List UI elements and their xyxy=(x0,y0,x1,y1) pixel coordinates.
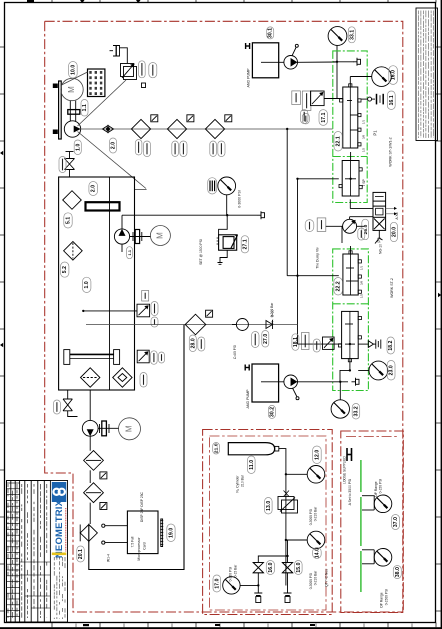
pressure header xyxy=(122,214,257,216)
label 12.0 xyxy=(313,446,322,464)
label 2.0 xyxy=(110,138,117,153)
svg-text:M: M xyxy=(67,86,76,93)
svg-text:0-210 Bar: 0-210 Bar xyxy=(314,506,318,521)
top fold mark xyxy=(27,0,34,3)
svg-text:1/1: 1/1 xyxy=(360,266,364,271)
RV3 drain bracket xyxy=(218,250,228,264)
coupling P1.1-M2 xyxy=(133,230,142,244)
bold H mark xyxy=(246,43,250,49)
label 060 xyxy=(142,291,149,302)
check valve CV3 xyxy=(358,341,373,348)
svg-text:22.1: 22.1 xyxy=(336,136,342,146)
label 16.1 xyxy=(387,91,395,110)
return filter F7 xyxy=(185,314,206,335)
svg-text:Fl→ O-10: Fl→ O-10 xyxy=(271,310,275,325)
enclosure box (right/bottom) xyxy=(89,325,184,570)
svg-text:17.1: 17.1 xyxy=(321,112,327,122)
label 17.0 xyxy=(213,575,221,592)
filter F1 xyxy=(131,119,150,138)
strainer F9 xyxy=(113,368,132,387)
label 38.0 xyxy=(393,566,401,579)
mounting plate xyxy=(59,81,62,139)
svg-text:NEOMETRIX: NEOMETRIX xyxy=(54,499,65,558)
svg-text:The Dump Vlv: The Dump Vlv xyxy=(316,247,320,269)
svg-text:23.0: 23.0 xyxy=(389,365,395,375)
svg-text:1.1: 1.1 xyxy=(128,250,132,256)
svg-text:30.2: 30.2 xyxy=(269,407,275,417)
svg-text:1/2: 1/2 xyxy=(360,294,364,299)
label 20.0 xyxy=(390,222,397,241)
svg-text:20.1: 20.1 xyxy=(78,549,84,559)
gauge DP2 xyxy=(374,549,392,567)
label 33.2 xyxy=(352,404,360,420)
svg-text:M: M xyxy=(125,425,134,432)
svg-text:QTY=2 Nos: QTY=2 Nos xyxy=(324,569,328,587)
svg-text:Microprocessor: Microprocessor xyxy=(137,537,141,561)
reservoir tank xyxy=(59,177,135,390)
svg-text:SET @ 1500 PSI: SET @ 1500 PSI xyxy=(199,239,203,265)
label xyxy=(301,110,308,124)
relief valve RV3 xyxy=(217,234,238,250)
gauge 33.2 drop xyxy=(339,382,341,400)
red box B outer (DP gauges kit) xyxy=(341,431,404,613)
hand pump HP2 xyxy=(284,375,299,400)
title block column dividers xyxy=(10,481,12,623)
plate bolt top xyxy=(53,84,58,89)
label r18 xyxy=(302,333,310,350)
F1 bypass xyxy=(151,115,158,122)
label 22.2 xyxy=(334,278,343,296)
internal lines V1 xyxy=(347,77,372,131)
manifold valve V1 (ST-1 upper) xyxy=(340,84,361,148)
svg-text:0-1500 PSI: 0-1500 PSI xyxy=(384,589,388,606)
svg-text:WORK ST-2: WORK ST-2 xyxy=(390,278,394,298)
red box B inner top line xyxy=(346,436,398,438)
N2 bottle xyxy=(228,443,281,455)
F2 bypass xyxy=(187,115,194,122)
return line 1 xyxy=(83,310,137,312)
DCV pilot lines right xyxy=(386,207,397,215)
svg-text:33.2: 33.2 xyxy=(354,406,360,416)
svg-text:1.0: 1.0 xyxy=(84,281,90,288)
label 16.0 xyxy=(389,66,398,85)
needle valve NV1 xyxy=(253,562,263,572)
F3 bypass xyxy=(225,115,232,122)
manifold valve V3 (ST-2 upper) xyxy=(343,251,362,295)
plug pressure header xyxy=(257,211,265,219)
drive line diagonal down xyxy=(78,132,147,189)
svg-text:5.1: 5.1 xyxy=(66,217,72,224)
wire g2 xyxy=(286,539,307,541)
label 22x xyxy=(305,220,314,232)
gauge N2-3 xyxy=(223,577,240,594)
svg-text:NG-10: NG-10 xyxy=(379,244,383,254)
label 22.1 xyxy=(334,132,342,152)
feed line y276 xyxy=(287,275,339,277)
junction gauge xyxy=(226,214,228,216)
svg-text:14.0: 14.0 xyxy=(314,548,320,558)
wire to 23.0 xyxy=(358,370,369,372)
gauge 33.1 xyxy=(328,27,347,46)
label rv3 xyxy=(241,236,248,253)
svg-text:17.0: 17.0 xyxy=(214,578,220,588)
svg-text:LOOSE SUPPLIED: LOOSE SUPPLIED xyxy=(343,455,347,483)
link manifolds xyxy=(349,199,351,208)
svg-text:T SP: T SP xyxy=(362,179,366,187)
svg-text:12.0: 12.0 xyxy=(314,450,320,460)
svg-text:27.0: 27.0 xyxy=(263,334,269,344)
svg-text:0-200 PSI: 0-200 PSI xyxy=(229,567,233,582)
junction y276 xyxy=(296,275,298,277)
filter F2 xyxy=(167,119,186,138)
junction return1 xyxy=(82,310,84,312)
gauge drop xyxy=(226,195,228,216)
F11 bypass xyxy=(100,503,107,510)
label htr xyxy=(151,351,158,365)
wire relief to manifold xyxy=(324,98,343,100)
stub at diagonal end xyxy=(135,189,147,191)
svg-text:22.2: 22.2 xyxy=(336,281,342,291)
junction V4 xyxy=(349,343,351,345)
label 17.1 xyxy=(319,110,328,126)
label sv1 xyxy=(59,157,66,173)
return header y325 xyxy=(86,324,298,326)
svg-text:10.0: 10.0 xyxy=(70,65,76,75)
vent symbols xyxy=(254,593,262,603)
svg-text:3/9: 3/9 xyxy=(362,135,366,140)
svg-text:33.1: 33.1 xyxy=(349,30,355,40)
label cv1a xyxy=(252,332,260,348)
svg-text:0-210 Bar: 0-210 Bar xyxy=(314,570,318,585)
svg-text:AND PUMP: AND PUMP xyxy=(247,68,251,88)
directional control valve DCV1 xyxy=(373,192,386,230)
label 26.0 xyxy=(362,219,369,240)
svg-text:Card: Card xyxy=(143,542,147,549)
drive line diagonal up xyxy=(78,80,127,126)
hand pump line xyxy=(298,61,338,63)
svg-text:AND PUMP: AND PUMP xyxy=(246,389,250,409)
P2 discharge xyxy=(89,436,91,451)
heater valve xyxy=(137,350,149,363)
pump data plate xyxy=(88,69,105,97)
junction nv xyxy=(286,555,288,557)
relief valve RV1 xyxy=(121,64,137,80)
bold mark set3500 xyxy=(347,448,352,461)
pump P1.1 xyxy=(114,229,129,244)
svg-text:0-3000 PSI: 0-3000 PSI xyxy=(309,573,313,590)
check valve + snubber xyxy=(361,94,383,105)
svg-text:N₂ Cylinder: N₂ Cylinder xyxy=(236,475,240,493)
filler strainer F6 xyxy=(64,242,83,261)
svg-text:2.0: 2.0 xyxy=(91,185,97,192)
svg-text:30.1: 30.1 xyxy=(268,28,274,38)
label xyxy=(149,63,157,78)
label 040 xyxy=(292,91,301,105)
label rlv xyxy=(151,302,158,316)
coupling M1-P1 xyxy=(68,101,80,121)
svg-text:0-150 PSI: 0-150 PSI xyxy=(379,479,383,494)
coupling P2-M3 xyxy=(100,421,110,436)
riser A xyxy=(286,129,288,276)
label 1.0 pump xyxy=(74,140,81,155)
notes box (proprietary note, rotated text) xyxy=(416,8,438,141)
svg-text:1.0: 1.0 xyxy=(75,144,81,151)
gauge PG main xyxy=(218,177,236,195)
label 21.0 xyxy=(213,443,220,455)
circulation pump P2 xyxy=(82,420,98,436)
bold H mark 2 xyxy=(245,365,249,371)
electric motor M2 xyxy=(150,226,170,246)
svg-text:C=80 PSI: C=80 PSI xyxy=(233,345,237,359)
label 13.0 xyxy=(265,498,273,515)
internal lines V2 xyxy=(345,152,356,179)
electric motor M3 xyxy=(119,418,141,440)
svg-text:0-3000 PSI: 0-3000 PSI xyxy=(238,190,242,208)
filter F10 xyxy=(84,451,104,471)
page right edge line xyxy=(441,0,442,629)
bottom tick blobs xyxy=(83,624,89,626)
label 5.2 xyxy=(61,262,69,277)
stub xyxy=(333,61,337,63)
svg-text:13.0: 13.0 xyxy=(266,501,272,511)
label 15.0 xyxy=(295,561,303,575)
svg-text:W1-4: W1-4 xyxy=(107,554,111,562)
gauge 23.0 xyxy=(369,361,388,380)
drain pipe xyxy=(68,390,78,417)
svg-text:19.0: 19.0 xyxy=(168,528,174,538)
label 060b xyxy=(317,218,326,232)
main red dash-dot border xyxy=(45,21,403,612)
filter F3 xyxy=(205,119,224,138)
junction riser/feed xyxy=(296,178,298,180)
main pump P1.0 xyxy=(64,121,80,137)
svg-text:DP Range: DP Range xyxy=(380,592,384,607)
label small xyxy=(302,113,309,124)
loose supplied green line xyxy=(360,460,362,592)
svg-text:18.1: 18.1 xyxy=(293,337,299,347)
shutoff valve SV1 xyxy=(65,152,75,170)
svg-text:WORK ST-1/W1-2: WORK ST-1/W1-2 xyxy=(389,137,393,166)
label rv4 xyxy=(313,339,320,352)
svg-text:P1: P1 xyxy=(373,130,378,136)
drop to relief xyxy=(336,45,338,99)
relief valve RV2 xyxy=(311,91,325,106)
label 30.2 xyxy=(268,405,275,418)
label htr2 xyxy=(159,352,165,363)
label 2.0 tank xyxy=(89,182,98,196)
plug hp line xyxy=(353,58,361,66)
check valve CV2 xyxy=(266,320,273,329)
label 18.1 xyxy=(292,334,299,351)
title block left grid rows xyxy=(7,483,20,616)
label 27.0 xyxy=(262,331,269,348)
tank to P2 suction xyxy=(89,390,91,420)
svg-text:28.0: 28.0 xyxy=(190,338,196,348)
gauge N2-1 xyxy=(307,466,325,484)
filter F11 xyxy=(84,483,104,503)
svg-text:16.1: 16.1 xyxy=(389,95,395,105)
hand pump HP2 box xyxy=(252,364,279,402)
suction strainer F8 xyxy=(81,368,100,387)
riser B xyxy=(297,179,299,344)
green divider 1 xyxy=(333,156,367,158)
green divider 2 xyxy=(333,303,369,305)
svg-text:M: M xyxy=(155,232,164,239)
svg-text:0-15 Bar: 0-15 Bar xyxy=(233,564,237,578)
sight level glass xyxy=(64,350,120,365)
return valve RLV xyxy=(137,304,150,317)
label 5.1 xyxy=(64,213,72,228)
svg-text:16.0: 16.0 xyxy=(391,70,397,80)
junction suction/drop xyxy=(286,128,288,130)
label 300 rect xyxy=(302,91,311,111)
snubber 18.2 xyxy=(374,340,381,349)
bottle to manifold line xyxy=(281,449,286,586)
label 1.1 xyxy=(81,100,88,117)
frame zone arrows xyxy=(0,0,441,347)
gauge 16.0 xyxy=(372,67,392,87)
junction g2 xyxy=(285,539,287,541)
valve to tank xyxy=(69,170,71,178)
red box A inner xyxy=(210,436,327,610)
F10 bypass xyxy=(100,472,107,479)
svg-text:3/9: 3/9 xyxy=(360,281,364,286)
relief valve RV4 xyxy=(323,337,335,349)
svg-text:1/2: 1/2 xyxy=(362,148,366,153)
connector strip xyxy=(160,521,163,545)
svg-text:P2: P2 xyxy=(377,237,382,243)
F7 bypass xyxy=(206,310,213,317)
pressure regulator PR1 xyxy=(278,491,298,514)
breather (bold) xyxy=(86,202,120,210)
svg-text:37.0: 37.0 xyxy=(393,517,399,527)
electric motor M1 (main) xyxy=(61,78,83,100)
label 11.0 xyxy=(248,456,256,474)
label F1b xyxy=(143,141,150,157)
svg-text:20.0: 20.0 xyxy=(391,227,397,237)
manifold valve V2 (ST-1 lower) xyxy=(339,161,362,197)
needle valve NV2 xyxy=(282,562,292,572)
label dv1 xyxy=(53,400,60,414)
wire xyxy=(89,503,91,524)
tank inner divider xyxy=(109,177,111,390)
feed line y178 xyxy=(298,178,339,180)
label 19.0 xyxy=(167,524,175,542)
internal lines V3 xyxy=(346,246,358,281)
hp2 line xyxy=(298,381,349,383)
svg-text:0-3000 PSI: 0-3000 PSI xyxy=(309,509,313,526)
label F3a xyxy=(210,141,217,157)
svg-text:210 Bar: 210 Bar xyxy=(240,474,244,487)
label 300psi xyxy=(139,61,146,78)
plate bolt bottom xyxy=(53,130,58,135)
label 1.1 xyxy=(127,247,133,259)
check valve CV1 xyxy=(232,319,248,331)
dual check valve xyxy=(80,525,97,542)
svg-text:A Set to 3500 PSI: A Set to 3500 PSI xyxy=(348,479,352,506)
junction hp2 xyxy=(339,381,341,383)
svg-text:1/1: 1/1 xyxy=(362,120,366,125)
small port mark xyxy=(142,83,146,88)
red box A outer (N2 charging kit) xyxy=(203,430,333,615)
label 23.0 xyxy=(387,361,395,381)
page bottom edge line xyxy=(0,627,442,629)
label 10.0 xyxy=(69,62,78,79)
label 1.0 tank xyxy=(82,277,91,292)
card stub wires xyxy=(102,524,128,544)
label F2b xyxy=(180,141,187,157)
DCV drain + lever xyxy=(375,230,383,243)
internal lines V4 xyxy=(345,324,355,344)
plug hp2 xyxy=(352,378,360,386)
stub v xyxy=(341,226,343,243)
svg-text:16.0: 16.0 xyxy=(268,562,274,572)
svg-text:21.0: 21.0 xyxy=(214,443,220,453)
svg-text:18.2: 18.2 xyxy=(388,340,394,350)
label 18.2 xyxy=(387,337,394,354)
label rlv2 xyxy=(151,317,158,327)
label 16.0b xyxy=(266,561,274,575)
hand pump HP1 xyxy=(284,44,298,69)
junction v4 bottom xyxy=(349,369,351,371)
wire g1 xyxy=(286,473,307,475)
label 37.0 xyxy=(392,515,400,530)
green box ST-1 manifold xyxy=(333,51,367,203)
svg-text:7.5 Full: 7.5 Full xyxy=(131,536,135,547)
leader to data plate xyxy=(62,72,88,85)
svg-text:38.0: 38.0 xyxy=(395,567,401,577)
label 33.1 xyxy=(348,27,355,43)
label fc xyxy=(358,228,365,240)
link to dcv xyxy=(350,208,373,210)
gauge N2-2 xyxy=(307,531,325,549)
junction hp xyxy=(336,61,338,63)
svg-text:5.2: 5.2 xyxy=(62,266,68,273)
snubber xyxy=(208,178,217,194)
wire xyxy=(89,470,91,483)
junction g3 xyxy=(257,584,259,586)
svg-text:1.1: 1.1 xyxy=(82,104,88,111)
flow control valve FC1 xyxy=(343,219,357,233)
suction header xyxy=(81,128,333,130)
svg-text:27.1: 27.1 xyxy=(242,239,248,249)
wire fc out xyxy=(357,225,364,227)
wire fc to dcv b xyxy=(350,216,373,218)
svg-text:15.0: 15.0 xyxy=(296,562,302,572)
green box ST-2 manifold xyxy=(333,249,369,391)
gauge DP1 xyxy=(374,495,392,513)
label F3b xyxy=(218,141,225,157)
label 28.0 xyxy=(189,335,196,352)
P1.1 discharge xyxy=(121,215,123,229)
NEOMETRIX logo block xyxy=(50,481,67,623)
stub fc xyxy=(349,217,351,220)
svg-text:DISP 25P DISP 25C: DISP 25P DISP 25C xyxy=(140,491,144,521)
label F1a xyxy=(135,140,142,156)
svg-text:DP Range: DP Range xyxy=(374,481,378,496)
microprocessor card box xyxy=(127,511,158,554)
label f7b xyxy=(198,337,205,351)
junction V2 xyxy=(349,178,351,180)
manifold valve V4 (ST-2 lower) xyxy=(338,311,361,361)
label f9 xyxy=(140,373,147,388)
wire to fc xyxy=(326,225,343,227)
svg-text:2.0: 2.0 xyxy=(111,142,117,149)
feed line y344 xyxy=(298,343,342,345)
junction g1 xyxy=(285,473,287,475)
cylinder port symbol xyxy=(110,46,128,64)
drain valve DV1 xyxy=(63,399,72,411)
